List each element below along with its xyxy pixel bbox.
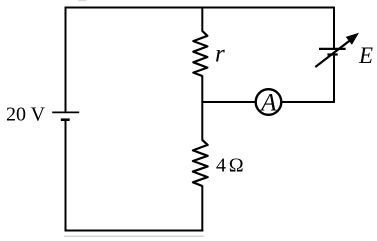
wire left vertical lower bbox=[65, 121, 67, 232]
wire node to ammeter bbox=[202, 101, 256, 103]
wire middle vertical mid bbox=[201, 76, 203, 141]
svg-text:E: E bbox=[358, 43, 373, 68]
variable source arrow bbox=[315, 33, 359, 67]
wire top rail bbox=[65, 7, 336, 9]
svg-text:20 V: 20 V bbox=[6, 104, 46, 126]
wire bottom rail bbox=[65, 230, 204, 232]
svg-text:A: A bbox=[259, 90, 277, 117]
svg-text:r: r bbox=[215, 41, 225, 68]
resistor R2 4 ohm bbox=[193, 140, 208, 186]
battery B1 20 V bbox=[52, 112, 79, 119]
artifact faint mark top bbox=[78, 0, 87, 1]
wire middle vertical top bbox=[201, 7, 203, 32]
wire right vertical upper bbox=[333, 7, 335, 50]
svg-text:Ω: Ω bbox=[229, 155, 244, 177]
wire ammeter to right rail bbox=[281, 101, 336, 103]
artifact faint line bottom bbox=[64, 235, 204, 237]
variable source E plates bbox=[319, 49, 346, 55]
svg-text:4: 4 bbox=[216, 155, 226, 177]
wire left vertical upper bbox=[65, 7, 67, 113]
wire middle vertical bottom bbox=[201, 186, 203, 232]
resistor r bbox=[193, 31, 207, 76]
wire right vertical lower bbox=[333, 56, 335, 103]
ammeter A1 bbox=[256, 89, 282, 115]
